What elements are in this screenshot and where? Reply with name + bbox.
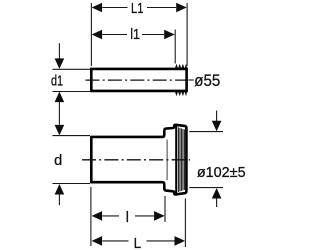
dimension l1 xyxy=(102,34,164,36)
serrations bottom xyxy=(175,92,178,96)
pipe end face xyxy=(185,68,188,93)
socket pipe outline xyxy=(91,125,186,195)
d1 bottom arrow (up) + shared stem to d top arrow (down) xyxy=(58,102,60,125)
dimension d1 extension lines xyxy=(53,68,91,70)
extension line right L xyxy=(184,199,186,248)
socket bore end line (inside pipe) xyxy=(166,140,168,181)
svg-text:ø102±5: ø102±5 xyxy=(197,165,246,181)
svg-text:L: L xyxy=(134,235,141,250)
d1 top arrow (down) xyxy=(58,43,60,59)
ø102 bottom arrow (up) xyxy=(216,198,218,208)
socket inner mouth edge xyxy=(175,126,177,193)
dimension L xyxy=(102,240,174,242)
extension line right l1 xyxy=(174,30,176,64)
pipe body (top pipe outline) xyxy=(91,68,186,93)
svg-text:l: l xyxy=(126,209,129,226)
svg-text:ø55: ø55 xyxy=(194,71,220,90)
dimension ø102±5 extension lines xyxy=(189,131,223,133)
svg-text:l1: l1 xyxy=(130,26,140,43)
ø102 top arrow (down) xyxy=(216,111,218,122)
dimension l xyxy=(102,215,154,217)
dimension L1 xyxy=(102,7,176,9)
centerline top pipe xyxy=(86,79,189,81)
centerline bottom pipe xyxy=(82,159,190,161)
extension line left (L1/l1) xyxy=(90,3,92,66)
extension line right L1 xyxy=(186,3,188,66)
serrations (ribbed spigot end) top xyxy=(175,64,187,96)
extension line left (l/L) xyxy=(90,187,92,246)
extension line right l xyxy=(164,196,166,222)
svg-text:d1: d1 xyxy=(51,73,63,90)
svg-text:d: d xyxy=(54,152,62,169)
leader line to ø55 xyxy=(188,79,194,81)
socket taper hatch lines xyxy=(178,127,184,191)
dimension d extension lines xyxy=(53,135,91,137)
d bottom arrow (up) with stem xyxy=(58,195,60,206)
svg-text:L1: L1 xyxy=(131,0,143,17)
